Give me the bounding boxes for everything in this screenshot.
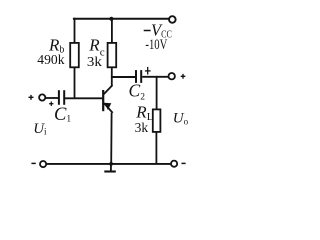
terminal input - [40,161,46,167]
capacitor C2 [136,70,141,83]
wire collector to C2 [111,76,135,78]
label + output [181,74,186,79]
base bar [102,90,104,111]
wire RL top [156,76,158,110]
svg-text:-10V: -10V [145,37,167,53]
label - input [31,162,35,164]
terminal output - [171,161,177,167]
resistor Rc [108,43,117,67]
node junction dot emitter/rail [109,162,113,166]
svg-text:490k: 490k [37,53,64,68]
wire Rc bottom / collector vertical [111,67,113,86]
wire C2 to output terminal [142,76,168,78]
wire bottom rail [46,163,171,165]
label + of C2 [145,67,151,75]
emitter arrowhead [104,103,111,110]
wire Rc top [111,18,113,43]
wire Rb bottom [74,67,76,98]
svg-text:3k: 3k [135,121,149,136]
resistor Rb [70,43,79,67]
wire input to C1 [46,97,59,99]
terminal input + [39,94,45,100]
emitter diagonal [104,103,113,113]
wire emitter vertical [110,113,112,164]
terminal output + [169,73,175,79]
wire RL bottom [155,132,157,164]
label - output [182,162,186,164]
label + of C1 [49,102,53,106]
label minus of Vcc [144,30,151,32]
wire Rb top [74,18,76,43]
wire base [65,97,102,99]
resistor RL [153,109,161,131]
capacitor C1 [59,90,64,105]
node junction dot on top rail [109,17,113,21]
label + input [29,95,34,100]
ground [104,164,116,172]
terminal -Vcc [169,16,176,23]
transistor Q1 [102,85,113,113]
svg-text:3k: 3k [87,55,102,70]
wire top rail [73,18,169,20]
collector diagonal [104,85,113,94]
